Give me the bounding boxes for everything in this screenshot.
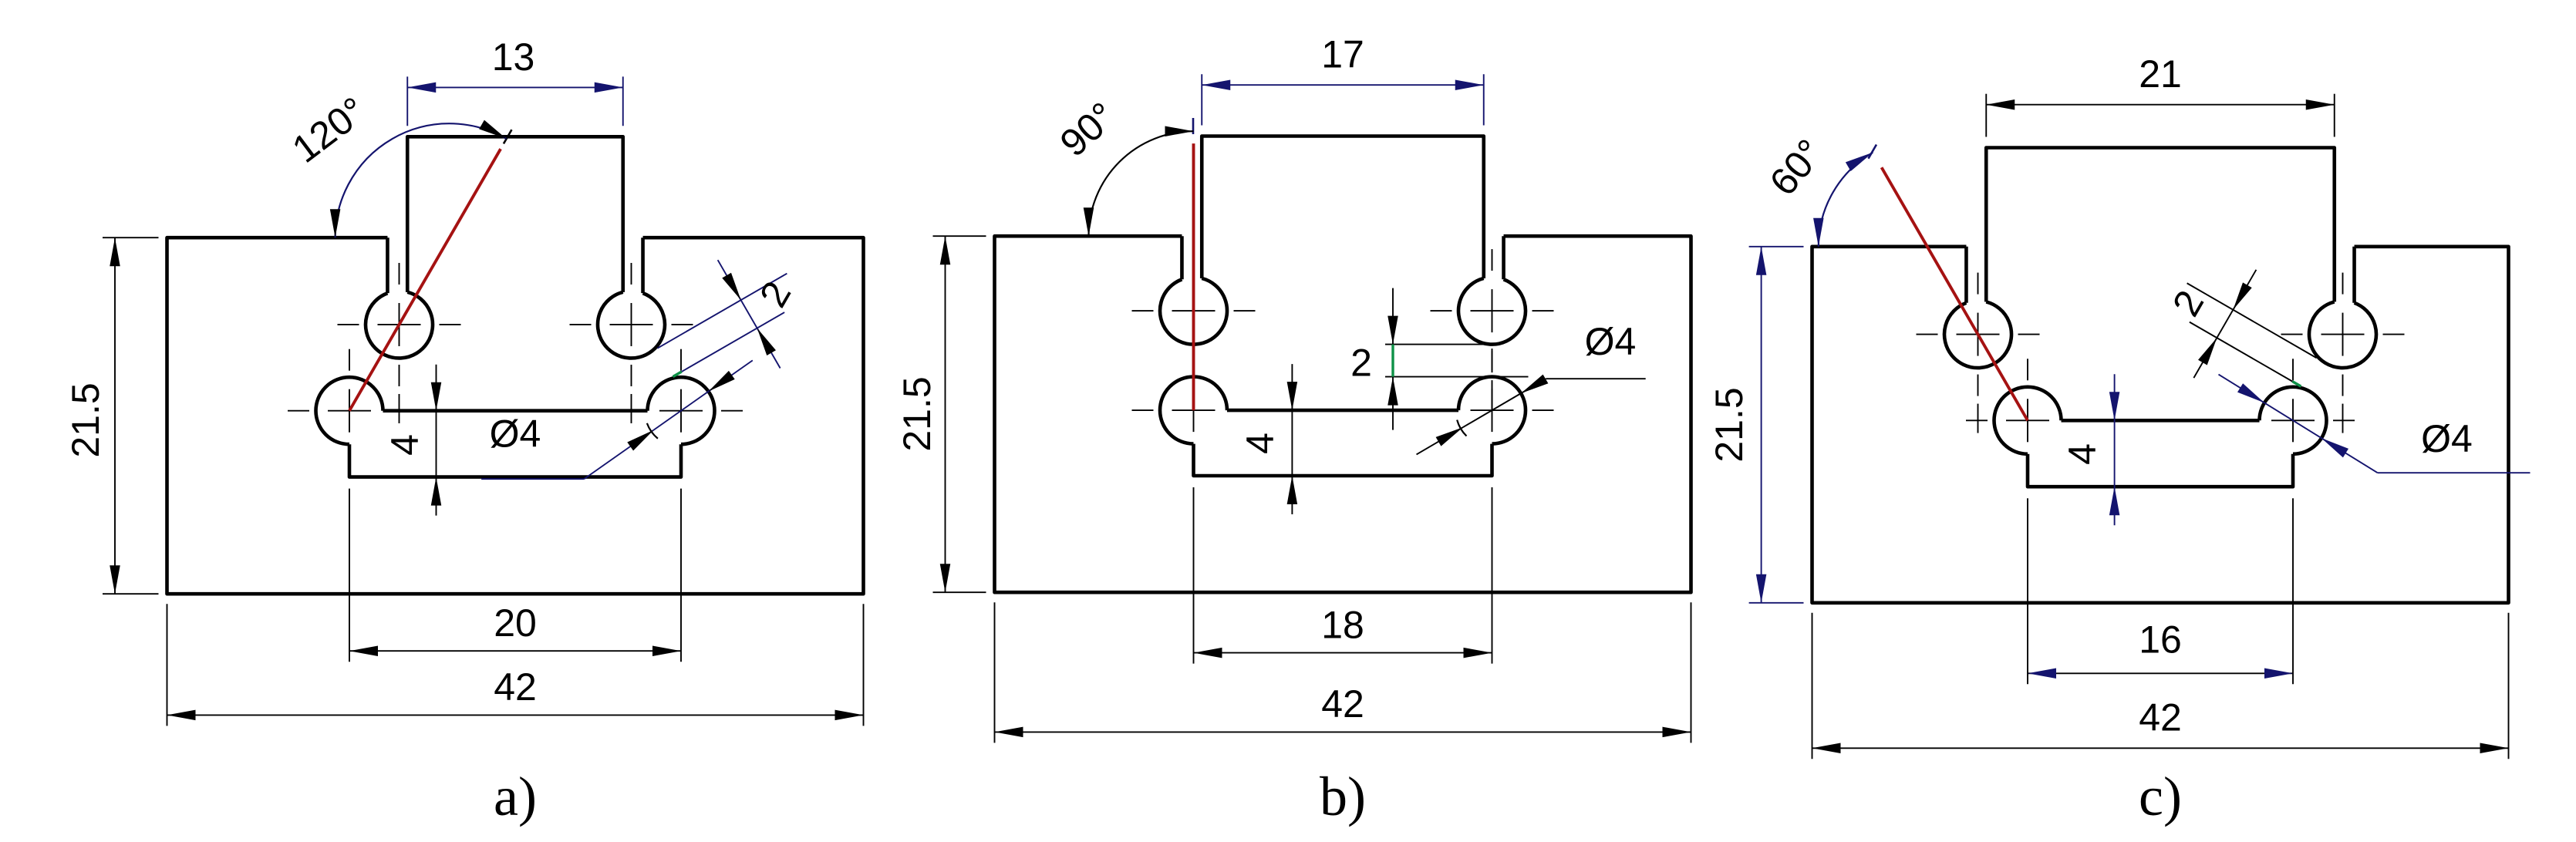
relief hole lower-left b (Ø4) [1160, 377, 1227, 444]
relief hole lower-left a (Ø4) [315, 377, 383, 444]
svg-text:60°: 60° [1762, 131, 1833, 204]
cut-line end tick b [1192, 118, 1195, 134]
relief hole upper-left c (Ø4) [1944, 301, 2011, 368]
right slot outer wall a [641, 237, 645, 293]
svg-text:21.5: 21.5 [1708, 387, 1751, 462]
svg-text:4: 4 [1239, 433, 1282, 454]
dimension 16 (recess span) c [2028, 498, 2293, 684]
svg-text:17: 17 [1321, 33, 1364, 76]
left slot outer wall a [386, 237, 389, 293]
angle dimension arc 90&#176; b [1089, 131, 1194, 236]
svg-text:21.5: 21.5 [64, 382, 107, 457]
green construction mark a [673, 372, 682, 377]
relief hole lower-right a (Ø4) [648, 377, 715, 444]
centerlines of lower-left hole a [288, 349, 411, 473]
green construction mark c [2292, 382, 2301, 387]
dimension 2 (hole gap) b [1350, 288, 1528, 430]
relief hole lower-left c (Ø4) [1994, 387, 2062, 454]
svg-text:21: 21 [2139, 52, 2182, 96]
dimension 17 (tongue width) b [1202, 33, 1484, 126]
svg-text:2: 2 [1350, 342, 1372, 385]
red saw-cut line c at 60&#176; [1882, 167, 2028, 420]
red saw-cut line b at 90&#176; [1192, 143, 1195, 410]
centerlines of upper-left hole c [1917, 273, 2040, 433]
block outline c: main body with shoulders [1812, 247, 2509, 603]
svg-text:20: 20 [494, 601, 537, 645]
clearance recess c [2028, 454, 2293, 487]
dimension 2 (hole gap) c [2164, 270, 2317, 386]
svg-text:c): c) [2139, 766, 2182, 827]
relief hole upper-right b (Ø4) [1458, 278, 1526, 345]
centerlines of lower-left hole b [1132, 349, 1256, 472]
dimension 21.5 (height) a [64, 237, 159, 594]
svg-text:42: 42 [2139, 695, 2182, 739]
right slot outer wall b [1502, 236, 1505, 279]
centerlines of upper-left hole b [1132, 249, 1256, 409]
centerlines of lower-right hole a [619, 349, 743, 473]
svg-text:Ø4: Ø4 [2421, 417, 2473, 460]
left slot outer wall c [1964, 247, 1968, 303]
svg-text:42: 42 [494, 665, 537, 709]
svg-text:Ø4: Ø4 [1585, 320, 1637, 363]
dimension Ø4 (hole diameter callout) b [1417, 320, 1646, 454]
dimension 21.5 (height) b [895, 236, 986, 592]
angle dimension arc 120&#176; a [335, 123, 507, 237]
svg-text:b): b) [1320, 766, 1366, 827]
block outline a: main body with shoulders [167, 237, 864, 594]
clearance recess a [349, 444, 681, 477]
right slot outer wall c [2352, 247, 2356, 303]
svg-text:4: 4 [2061, 443, 2104, 465]
dimension 18 (recess span) b [1194, 487, 1492, 664]
svg-text:a): a) [494, 766, 537, 827]
svg-text:13: 13 [492, 35, 535, 79]
svg-text:4: 4 [383, 434, 427, 456]
dimension 42 (overall width) b [995, 602, 1691, 743]
dimension 4 (recess depth) b [1239, 364, 1297, 514]
seat ledge a [383, 409, 648, 413]
dimension 4 (recess depth) c [2061, 374, 2119, 525]
dimension 21.5 (height) c [1708, 247, 1804, 603]
relief hole upper-left a (Ø4) [366, 292, 433, 359]
centerlines of lower-right hole b [1431, 349, 1554, 472]
tongue (tenon) b [1202, 136, 1484, 278]
relief hole upper-right a (Ø4) [598, 292, 665, 359]
svg-text:16: 16 [2139, 618, 2182, 661]
svg-text:2: 2 [2164, 283, 2212, 323]
dimension 4 (recess depth) a [383, 365, 441, 516]
dimension Ø4 (hole diameter callout) c [2218, 375, 2530, 473]
svg-text:18: 18 [1321, 604, 1364, 647]
svg-text:21.5: 21.5 [895, 376, 939, 451]
relief hole upper-right c (Ø4) [2309, 301, 2376, 368]
dimension Ø4 (hole diameter callout) a [481, 360, 753, 479]
red saw-cut line a at 120&#176; [349, 149, 501, 411]
seat ledge c [2062, 419, 2260, 423]
block outline b: main body with shoulders [995, 236, 1691, 592]
svg-text:Ø4: Ø4 [490, 412, 541, 455]
svg-text:42: 42 [1321, 682, 1364, 726]
clearance recess b [1194, 444, 1492, 476]
left slot outer wall b [1180, 236, 1184, 279]
centerlines of upper-right hole c [2281, 273, 2405, 433]
centerlines of upper-left hole a [338, 263, 461, 423]
centerlines of upper-right hole a [570, 263, 693, 423]
dimension 42 (overall width) a [167, 604, 864, 726]
dimension 13 (tongue width) a [407, 35, 623, 126]
angle dimension arc 60&#176; c [1819, 153, 1873, 247]
centerlines of lower-left hole c [1966, 359, 2089, 482]
centerlines of lower-right hole c [2231, 359, 2355, 482]
relief hole lower-right c (Ø4) [2260, 387, 2327, 454]
svg-text:120°: 120° [285, 89, 374, 171]
seat ledge b [1227, 409, 1458, 413]
svg-text:90°: 90° [1052, 94, 1124, 165]
tongue (tenon) c [1986, 148, 2335, 302]
relief hole lower-right b (Ø4) [1458, 377, 1526, 444]
centerlines of upper-right hole b [1431, 249, 1554, 409]
cut-line end tick a [504, 130, 512, 143]
dimension 42 (overall width) c [1812, 613, 2509, 759]
cut-line end tick c [1868, 145, 1876, 159]
tongue (tenon) a [407, 136, 623, 292]
dimension 2 (hole gap) a [657, 260, 799, 376]
dimension 21 (tongue width) c [1986, 52, 2335, 136]
green construction mark b [1391, 345, 1394, 377]
dimension 20 (recess span) a [349, 489, 681, 662]
relief hole upper-left b (Ø4) [1160, 278, 1227, 345]
